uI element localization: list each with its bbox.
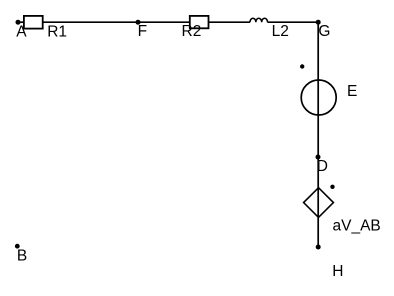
resistor R1 [24, 16, 67, 40]
svg-text:E: E [347, 83, 357, 100]
wire R1 to R2 [42, 21, 190, 23]
svg-text:D: D [317, 158, 328, 175]
svg-text:F: F [138, 23, 147, 40]
wire R2 to L2 [208, 21, 250, 23]
svg-text:G: G [318, 23, 330, 40]
wire A to R1 [18, 21, 25, 23]
unconnected dot near aV_AB [330, 185, 334, 189]
resistor R2 [182, 16, 209, 40]
svg-text:R2: R2 [182, 23, 202, 40]
svg-text:aV_AB: aV_AB [333, 217, 381, 234]
node G [316, 20, 331, 40]
svg-text:H: H [332, 263, 343, 280]
source E [301, 80, 357, 115]
node H [316, 245, 344, 281]
wire L2 to G [268, 21, 319, 23]
node B [15, 244, 27, 265]
svg-text:L2: L2 [272, 23, 289, 40]
inductor L2 [250, 18, 289, 40]
node D [316, 155, 328, 175]
svg-text:B: B [17, 248, 27, 265]
unconnected dot near E [300, 64, 304, 68]
svg-text:R1: R1 [47, 23, 67, 40]
wire G down through E, D, aV_AB to H [317, 22, 319, 247]
node F [136, 20, 148, 40]
node A [16, 20, 28, 41]
dependent source aV_AB [304, 188, 381, 235]
